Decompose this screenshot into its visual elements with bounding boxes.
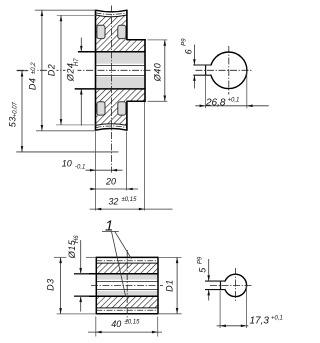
dimension 32 ±0,15 — [90, 208, 173, 210]
top tooth band — [96, 10, 128, 17]
bottom root line — [96, 307, 158, 309]
bottom pitch line dash-dot — [96, 126, 128, 128]
svg-text:+0,1: +0,1 — [271, 315, 283, 321]
right face line upper — [126, 10, 128, 41]
dimension 5 P9 — [208, 259, 210, 281]
dimension 20 — [90, 188, 139, 190]
svg-text:20: 20 — [105, 177, 116, 187]
svg-text:6: 6 — [183, 49, 193, 55]
dimension D3 — [54, 256, 66, 258]
extension lines below gear — [95, 132, 97, 211]
dimension Ø15 H6 — [74, 273, 89, 275]
bore bottom line — [75, 88, 146, 90]
dimension 6 P9 — [193, 45, 195, 65]
svg-text:P9: P9 — [182, 38, 188, 46]
svg-text:H7: H7 — [74, 58, 80, 66]
hub bottom line — [127, 100, 146, 102]
top pitch dash-dot — [96, 260, 158, 262]
top root line — [96, 262, 158, 264]
svg-text:17,3: 17,3 — [250, 315, 270, 326]
keyway lines — [96, 281, 158, 283]
crosshair centerlines — [228, 46, 230, 95]
vertical centerline — [126, 250, 128, 321]
svg-text:10: 10 — [62, 158, 72, 168]
dimension Ø40 — [148, 39, 168, 41]
svg-text:1: 1 — [105, 218, 113, 235]
svg-text:H6: H6 — [74, 235, 80, 243]
dimension 26,8 +0,1 — [204, 76, 206, 109]
left face line — [95, 10, 97, 131]
horizontal centerline — [91, 285, 163, 287]
crosshair centerlines — [234, 268, 236, 303]
bore bottom line — [74, 295, 158, 297]
vertical centerline — [110, 6, 112, 173]
dimension 17,3 +0,1 — [219, 290, 221, 328]
keyway slot — [205, 66, 213, 75]
dimension 10 -0,1 — [86, 169, 123, 171]
bore top line — [74, 273, 158, 275]
bore top line — [78, 51, 146, 53]
keyway lines — [96, 65, 145, 67]
keyway slot — [220, 282, 226, 289]
dimension 53 +0,07 — [17, 70, 29, 72]
gear hatched body silhouette — [96, 15, 146, 125]
svg-text:±0,2: ±0,2 — [31, 62, 37, 74]
svg-text:-0,1: -0,1 — [75, 164, 85, 170]
right face line lower — [126, 101, 128, 131]
circle — [224, 274, 246, 296]
dimension 40 ±0,15 — [95, 317, 97, 337]
circle — [210, 52, 247, 89]
keyway stripe white — [96, 64, 145, 77]
bore grey band — [96, 52, 145, 88]
left face — [95, 257, 97, 315]
pinion hatched body — [96, 263, 158, 308]
label halos — [29, 61, 38, 80]
hub right face — [144, 39, 146, 102]
svg-text:+0,1: +0,1 — [228, 97, 240, 103]
svg-text:±0,15: ±0,15 — [125, 319, 141, 325]
svg-text:±0,15: ±0,15 — [122, 197, 138, 203]
dimension Ø24 H7 — [80, 38, 82, 52]
right face — [157, 257, 159, 315]
dimension D1 — [158, 256, 182, 258]
svg-text:+0,07: +0,07 — [13, 101, 19, 117]
svg-text:D2: D2 — [47, 64, 57, 77]
bore grey band — [96, 275, 158, 296]
svg-text:32: 32 — [108, 196, 118, 206]
recess bottom-right — [118, 102, 126, 115]
recess bottom-left — [97, 102, 105, 115]
dimension D4 ±0,2 — [35, 9, 96, 11]
horizontal centerline — [17, 69, 152, 71]
bottom edge — [96, 313, 158, 315]
svg-text:26,8: 26,8 — [205, 97, 226, 108]
svg-text:D3: D3 — [46, 278, 56, 291]
bottom pitch dash-dot — [96, 309, 158, 311]
bottom tooth band — [96, 124, 128, 131]
svg-text:P9: P9 — [198, 256, 204, 264]
keyway stripe white — [96, 280, 158, 291]
recess top-left — [97, 25, 105, 38]
svg-text:D4: D4 — [28, 78, 38, 91]
svg-text:Ø40: Ø40 — [153, 63, 163, 83]
top band white — [96, 257, 158, 263]
svg-text:5: 5 — [197, 267, 207, 273]
hub top line — [127, 39, 146, 41]
svg-text:40: 40 — [111, 319, 121, 329]
dimension D2 — [57, 14, 96, 16]
recess top-right — [118, 25, 126, 38]
top edge — [96, 256, 158, 258]
bottom band white — [96, 308, 158, 314]
top pitch line dash-dot — [96, 13, 128, 15]
svg-text:D1: D1 — [165, 279, 175, 292]
